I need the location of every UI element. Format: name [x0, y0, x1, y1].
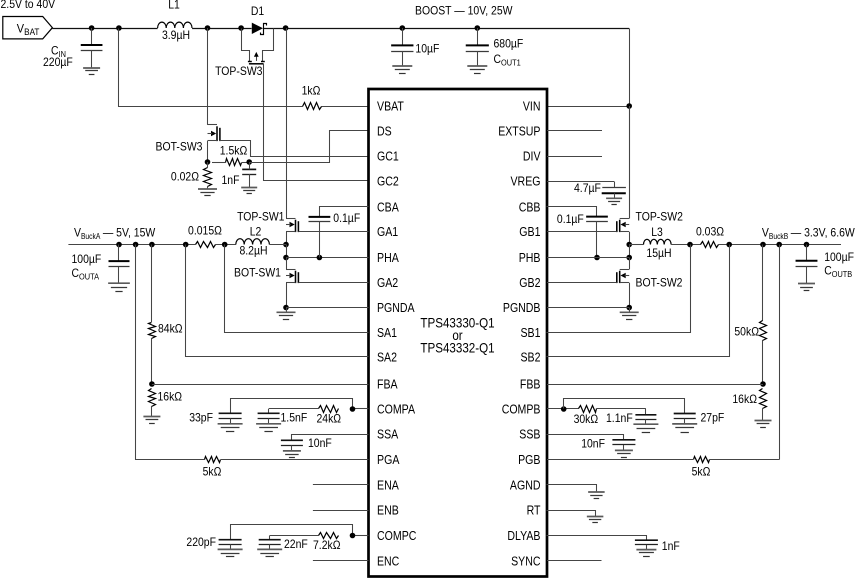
svg-text:0.02Ω: 0.02Ω	[171, 171, 199, 184]
svg-text:OUT1: OUT1	[501, 58, 521, 68]
svg-text:C: C	[494, 53, 502, 66]
svg-text:COMPC: COMPC	[377, 529, 416, 543]
svg-text:TPS43332-Q1: TPS43332-Q1	[420, 340, 494, 356]
svg-text:L3: L3	[651, 226, 663, 239]
svg-text:1.5kΩ: 1.5kΩ	[220, 145, 248, 158]
svg-text:GC1: GC1	[377, 150, 399, 164]
svg-text:D1: D1	[251, 5, 264, 18]
svg-text:22nF: 22nF	[284, 538, 308, 551]
svg-text:16kΩ: 16kΩ	[732, 393, 757, 406]
svg-text:1.1nF: 1.1nF	[606, 412, 633, 425]
svg-text:BOOST — 10V, 25W: BOOST — 10V, 25W	[415, 4, 513, 17]
svg-text:2.5V to 40V: 2.5V to 40V	[1, 0, 56, 11]
svg-text:33pF: 33pF	[189, 412, 213, 425]
svg-text:— 3.3V, 6.6W: — 3.3V, 6.6W	[791, 227, 855, 240]
svg-text:BOT-SW2: BOT-SW2	[636, 276, 683, 289]
svg-text:BOT-SW1: BOT-SW1	[234, 266, 281, 279]
svg-text:680µF: 680µF	[494, 38, 524, 51]
svg-text:FBB: FBB	[520, 378, 541, 392]
svg-text:PHB: PHB	[519, 251, 541, 265]
svg-text:SSA: SSA	[377, 428, 399, 442]
svg-text:PHA: PHA	[377, 251, 399, 265]
svg-text:100µF: 100µF	[824, 251, 854, 264]
svg-text:C: C	[72, 267, 80, 280]
svg-text:VBAT: VBAT	[377, 100, 404, 114]
svg-text:ENA: ENA	[377, 479, 399, 493]
svg-text:COMPB: COMPB	[502, 403, 541, 417]
svg-text:L1: L1	[168, 0, 180, 12]
svg-text:3.9µH: 3.9µH	[162, 29, 190, 42]
svg-text:SYNC: SYNC	[511, 555, 540, 569]
svg-text:L2: L2	[250, 226, 262, 239]
svg-text:FBA: FBA	[377, 378, 398, 392]
svg-text:ENB: ENB	[377, 504, 399, 518]
svg-text:5kΩ: 5kΩ	[692, 466, 711, 479]
svg-text:0.1µF: 0.1µF	[557, 213, 584, 226]
svg-text:DIV: DIV	[523, 150, 541, 164]
svg-text:VIN: VIN	[523, 100, 541, 114]
svg-text:5kΩ: 5kΩ	[203, 466, 222, 479]
svg-text:EXTSUP: EXTSUP	[498, 125, 540, 139]
svg-text:7.2kΩ: 7.2kΩ	[313, 539, 341, 552]
svg-text:10nF: 10nF	[581, 438, 605, 451]
svg-text:C: C	[824, 265, 832, 278]
svg-text:CBA: CBA	[377, 201, 399, 215]
svg-text:84kΩ: 84kΩ	[158, 323, 183, 336]
svg-text:10nF: 10nF	[308, 437, 332, 450]
svg-text:GC2: GC2	[377, 175, 399, 189]
svg-text:0.03Ω: 0.03Ω	[696, 226, 724, 239]
svg-text:1nF: 1nF	[662, 540, 680, 553]
svg-text:1.5nF: 1.5nF	[281, 412, 308, 425]
svg-text:24kΩ: 24kΩ	[317, 413, 342, 426]
svg-text:1nF: 1nF	[222, 174, 240, 187]
svg-text:15µH: 15µH	[646, 247, 671, 260]
svg-text:GB1: GB1	[519, 225, 540, 239]
svg-text:BAT: BAT	[24, 27, 39, 38]
svg-text:4.7µF: 4.7µF	[574, 182, 601, 195]
svg-text:220µF: 220µF	[43, 56, 73, 69]
svg-text:CBB: CBB	[519, 201, 541, 215]
svg-text:BuckA: BuckA	[81, 232, 101, 241]
svg-text:PGB: PGB	[518, 453, 540, 467]
svg-text:GB2: GB2	[519, 276, 540, 290]
svg-text:RT: RT	[527, 504, 541, 518]
svg-text:10µF: 10µF	[415, 43, 439, 56]
svg-text:DLYAB: DLYAB	[507, 529, 540, 543]
svg-text:27pF: 27pF	[701, 412, 725, 425]
svg-text:COMPA: COMPA	[377, 403, 416, 417]
svg-text:30kΩ: 30kΩ	[574, 413, 599, 426]
svg-text:SSB: SSB	[519, 428, 540, 442]
svg-text:BOT-SW3: BOT-SW3	[156, 141, 203, 154]
svg-text:— 5V, 15W: — 5V, 15W	[103, 227, 155, 240]
svg-text:0.015Ω: 0.015Ω	[188, 225, 222, 238]
svg-text:PGA: PGA	[377, 453, 400, 467]
svg-text:SA2: SA2	[377, 351, 397, 365]
svg-text:SB1: SB1	[521, 326, 541, 340]
svg-text:DS: DS	[377, 125, 392, 139]
svg-text:OUTA: OUTA	[79, 272, 99, 282]
svg-text:PGNDA: PGNDA	[377, 301, 415, 315]
svg-text:100µF: 100µF	[72, 253, 102, 266]
svg-text:ENC: ENC	[377, 555, 399, 569]
svg-text:SA1: SA1	[377, 326, 397, 340]
svg-text:8.2µH: 8.2µH	[239, 245, 267, 258]
svg-text:AGND: AGND	[510, 479, 541, 493]
svg-text:TOP-SW3: TOP-SW3	[215, 65, 262, 78]
svg-text:0.1µF: 0.1µF	[333, 212, 360, 225]
svg-text:1kΩ: 1kΩ	[302, 85, 321, 98]
svg-text:OUTB: OUTB	[832, 269, 853, 279]
svg-text:16kΩ: 16kΩ	[158, 391, 183, 404]
svg-text:SB2: SB2	[521, 351, 541, 365]
svg-text:TOP-SW2: TOP-SW2	[636, 210, 683, 223]
svg-text:GA1: GA1	[377, 225, 398, 239]
svg-text:PGNDB: PGNDB	[503, 301, 541, 315]
svg-text:BuckB: BuckB	[769, 232, 788, 241]
svg-text:50kΩ: 50kΩ	[734, 326, 759, 339]
svg-text:VREG: VREG	[511, 175, 541, 189]
svg-text:TOP-SW1: TOP-SW1	[237, 211, 284, 224]
svg-text:220pF: 220pF	[186, 536, 216, 549]
svg-text:GA2: GA2	[377, 276, 398, 290]
